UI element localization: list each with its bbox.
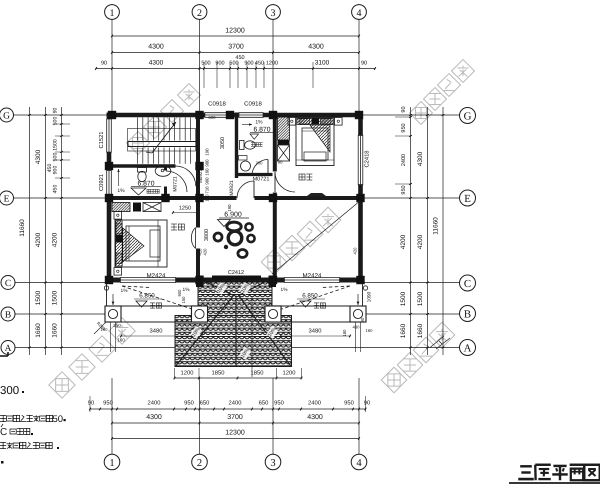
door openings bbox=[176, 164, 196, 169]
watermark 1 (stairs area) bbox=[127, 84, 201, 155]
svg-text:250: 250 bbox=[113, 323, 121, 328]
grid axis vertical extension lines bbox=[111, 20, 113, 113]
svg-text:90: 90 bbox=[88, 400, 94, 407]
window C1521 on left wall bbox=[106, 119, 111, 153]
right dim line detailed bbox=[410, 107, 412, 355]
svg-text:1: 1 bbox=[110, 8, 115, 19]
svg-text:C: C bbox=[464, 278, 471, 290]
svg-text:900: 900 bbox=[205, 159, 210, 167]
svg-text:6.900: 6.900 bbox=[224, 212, 242, 219]
right dim line 11660 bbox=[442, 107, 444, 355]
wall axis E bbox=[107, 196, 363, 200]
svg-text:4200: 4200 bbox=[417, 234, 424, 249]
column small dims bbox=[121, 335, 192, 337]
door arc corridor at E wall bbox=[237, 181, 254, 198]
svg-text:M2424: M2424 bbox=[303, 273, 322, 280]
svg-text:4200: 4200 bbox=[400, 234, 407, 249]
window M2424 right bedroom bbox=[284, 277, 340, 283]
svg-text:1850: 1850 bbox=[212, 370, 225, 377]
balcony columns 2 3 over tiles bbox=[192, 306, 208, 322]
note low 50 bbox=[0, 415, 6, 421]
svg-text:E: E bbox=[4, 195, 10, 205]
svg-text:450: 450 bbox=[53, 185, 59, 194]
svg-text:1850: 1850 bbox=[251, 370, 264, 377]
svg-text:700: 700 bbox=[256, 161, 264, 166]
svg-text:3480: 3480 bbox=[309, 328, 322, 335]
svg-text:1660: 1660 bbox=[400, 323, 407, 338]
svg-text:710: 710 bbox=[205, 186, 210, 194]
balcony dashed slope lines bbox=[122, 286, 195, 310]
clipped mark top bbox=[0, 355, 8, 357]
wall bottom along axis C bbox=[107, 278, 363, 283]
svg-text:500: 500 bbox=[229, 61, 238, 67]
svg-text:160: 160 bbox=[205, 168, 210, 176]
svg-text:50: 50 bbox=[53, 414, 64, 425]
svg-text:900: 900 bbox=[177, 289, 182, 297]
door arc central bath bbox=[252, 160, 268, 176]
svg-text:6.850: 6.850 bbox=[302, 293, 318, 300]
svg-text:4: 4 bbox=[357, 8, 362, 19]
grade break symbol bbox=[430, 336, 444, 348]
bottom dim row detailed bbox=[90, 408, 366, 410]
watermark 3 (center) bbox=[261, 207, 341, 275]
window C0918 right of axis 3 bbox=[239, 112, 264, 117]
svg-text:180: 180 bbox=[342, 329, 347, 337]
svg-text:4300: 4300 bbox=[308, 44, 324, 51]
svg-text:160: 160 bbox=[366, 328, 374, 333]
svg-text:3480: 3480 bbox=[150, 328, 163, 335]
svg-text:M0721: M0721 bbox=[173, 176, 179, 192]
svg-text:1500: 1500 bbox=[53, 139, 59, 151]
svg-text:12300: 12300 bbox=[225, 430, 245, 437]
top dim droplines bbox=[203, 62, 205, 88]
svg-text:950: 950 bbox=[401, 185, 407, 194]
wall axis 3 bbox=[273, 113, 277, 281]
wall right along axis 4 bbox=[358, 113, 363, 283]
svg-text:1200: 1200 bbox=[266, 61, 278, 67]
svg-text:650: 650 bbox=[200, 400, 210, 407]
nightstands left bedroom bbox=[114, 212, 122, 220]
svg-text:2: 2 bbox=[197, 8, 202, 19]
terrace diagonal line bbox=[272, 201, 361, 275]
svg-text:900: 900 bbox=[244, 61, 253, 67]
svg-text:3: 3 bbox=[270, 458, 275, 469]
svg-text:B: B bbox=[464, 309, 471, 321]
svg-text:4200: 4200 bbox=[35, 232, 42, 247]
left dim line detailed bbox=[61, 107, 63, 355]
svg-text:2: 2 bbox=[197, 458, 202, 469]
svg-text:420: 420 bbox=[358, 247, 363, 255]
svg-text:1500: 1500 bbox=[35, 290, 42, 305]
svg-text:B: B bbox=[5, 311, 11, 321]
door arc bath internal bbox=[166, 171, 187, 192]
top dim row detailed bbox=[96, 68, 375, 70]
svg-text:900: 900 bbox=[205, 177, 210, 185]
structural columns (black) bbox=[108, 111, 116, 119]
svg-text:1%: 1% bbox=[121, 288, 129, 294]
wall central bath vertical bbox=[235, 113, 238, 179]
svg-text:650: 650 bbox=[259, 400, 269, 407]
svg-text:90: 90 bbox=[401, 106, 407, 112]
entrance roof tiles bbox=[198, 278, 272, 316]
window C2418 on right wall bbox=[358, 135, 363, 185]
svg-text:M2424: M2424 bbox=[147, 273, 166, 280]
right dim droplines bbox=[395, 116, 411, 118]
bed left bedroom bbox=[115, 220, 167, 267]
svg-text:190: 190 bbox=[227, 204, 232, 212]
svg-text:450: 450 bbox=[255, 61, 264, 67]
column droplines below balcony bbox=[110, 322, 112, 352]
bottom dim row 4300 3700 4300 bbox=[112, 422, 359, 424]
svg-text:4: 4 bbox=[356, 458, 362, 469]
svg-text:1500: 1500 bbox=[417, 291, 424, 306]
svg-text:G: G bbox=[3, 112, 10, 122]
top dim row 12300 bbox=[112, 35, 359, 37]
shaft right of axis 3 bbox=[278, 117, 290, 140]
door arc right bedroom bbox=[275, 172, 295, 192]
svg-text:90: 90 bbox=[277, 160, 283, 165]
label bedroom right bbox=[299, 174, 305, 180]
svg-text:90: 90 bbox=[53, 108, 59, 114]
staircase bbox=[137, 118, 139, 141]
svg-text:A: A bbox=[464, 343, 472, 355]
svg-text:C2412: C2412 bbox=[228, 270, 244, 276]
svg-text:90: 90 bbox=[360, 317, 365, 322]
door arc left bedroom bbox=[191, 228, 195, 249]
svg-text:1200: 1200 bbox=[283, 370, 296, 377]
svg-text:2400: 2400 bbox=[308, 400, 321, 407]
svg-text:3700: 3700 bbox=[227, 414, 243, 421]
svg-text:4300: 4300 bbox=[146, 414, 162, 421]
svg-text:4300: 4300 bbox=[417, 151, 424, 166]
balcony parapet bbox=[107, 305, 192, 307]
roof slope labels 10% bbox=[215, 282, 227, 295]
bathroom left fixtures (toilet, basin) bbox=[138, 168, 147, 173]
svg-text:G: G bbox=[464, 111, 472, 123]
svg-text:4300: 4300 bbox=[307, 414, 323, 421]
svg-text:2400: 2400 bbox=[401, 154, 407, 166]
tv table right bedroom bbox=[307, 193, 326, 196]
wall top along axis G bbox=[107, 113, 363, 118]
left dim line 11660 bbox=[29, 107, 31, 355]
window M2424 left bedroom bbox=[120, 277, 176, 283]
svg-text:3800: 3800 bbox=[204, 229, 210, 241]
balcony arrows bbox=[112, 294, 114, 305]
svg-text:4300: 4300 bbox=[149, 60, 164, 67]
svg-text:950: 950 bbox=[103, 400, 113, 407]
left dim line grid spans bbox=[45, 107, 47, 355]
svg-text:1%: 1% bbox=[183, 287, 191, 293]
bottom dim edge verticals bbox=[89, 396, 91, 412]
svg-text:1250: 1250 bbox=[179, 206, 191, 212]
svg-text:6.850: 6.850 bbox=[139, 293, 155, 300]
svg-text:4300: 4300 bbox=[148, 44, 164, 51]
svg-text:C2418: C2418 bbox=[364, 150, 371, 167]
svg-text:450: 450 bbox=[47, 164, 53, 173]
svg-text:420: 420 bbox=[203, 248, 208, 256]
svg-text:900: 900 bbox=[53, 166, 59, 175]
svg-text:160: 160 bbox=[117, 338, 125, 343]
axis bubbles G E C B A left bbox=[0, 108, 14, 122]
svg-text:190: 190 bbox=[205, 148, 210, 156]
svg-text:11660: 11660 bbox=[19, 219, 26, 237]
svg-text:1500: 1500 bbox=[52, 290, 59, 305]
svg-text:950: 950 bbox=[274, 400, 284, 407]
svg-text:11660: 11660 bbox=[433, 217, 440, 235]
svg-text:950: 950 bbox=[184, 400, 194, 407]
shaft boxes below bathroom bbox=[112, 203, 130, 212]
balcony drains bbox=[104, 286, 108, 290]
window C0918 left of axis 3 bbox=[205, 112, 230, 117]
window C0921 on left wall bbox=[106, 170, 111, 195]
svg-text:2400: 2400 bbox=[148, 400, 161, 407]
left dim droplines bbox=[55, 123, 70, 125]
svg-text:4300: 4300 bbox=[35, 149, 42, 164]
svg-text:4200: 4200 bbox=[52, 232, 59, 247]
watermark 2 (top right) bbox=[410, 60, 475, 125]
svg-text:12300: 12300 bbox=[225, 28, 245, 35]
svg-text:1660: 1660 bbox=[52, 323, 59, 338]
nightstands right bedroom bbox=[288, 118, 296, 126]
label bedroom left bbox=[171, 224, 177, 230]
svg-text:C: C bbox=[5, 279, 11, 289]
grid axis horizontal lines bbox=[14, 114, 107, 116]
bed right bedroom bbox=[296, 118, 334, 166]
door arc stair corridor bbox=[176, 166, 196, 186]
svg-text:M0921: M0921 bbox=[198, 169, 203, 183]
svg-text:2400: 2400 bbox=[229, 400, 242, 407]
roof eave dim row 1200 1850 1850 1200 bbox=[175, 377, 302, 379]
right dim line grid spans bbox=[427, 107, 429, 355]
svg-text:1500: 1500 bbox=[400, 291, 407, 306]
svg-text:950: 950 bbox=[401, 123, 407, 132]
svg-text:M0921: M0921 bbox=[229, 180, 235, 196]
svg-text:90: 90 bbox=[364, 400, 370, 407]
wall left along axis 1 bbox=[107, 113, 112, 283]
svg-text:950: 950 bbox=[344, 400, 354, 407]
svg-text:3100: 3100 bbox=[315, 60, 330, 67]
svg-text:3: 3 bbox=[271, 8, 276, 19]
dim 1250 bbox=[173, 212, 197, 214]
svg-text:150: 150 bbox=[181, 296, 186, 304]
svg-text:C0918: C0918 bbox=[208, 101, 226, 108]
wall bath internal vertical bbox=[164, 166, 167, 198]
svg-text:1090: 1090 bbox=[367, 291, 373, 302]
watermark 5 (bottom left) bbox=[49, 318, 135, 398]
svg-text:600: 600 bbox=[208, 115, 216, 120]
svg-text:3700: 3700 bbox=[228, 44, 244, 51]
svg-text:1%: 1% bbox=[255, 120, 263, 126]
svg-text:1200: 1200 bbox=[181, 370, 194, 377]
wall stair-bath divider bbox=[109, 164, 200, 168]
svg-text:190: 190 bbox=[205, 194, 210, 202]
svg-text:C0918: C0918 bbox=[244, 101, 262, 108]
svg-text:480: 480 bbox=[353, 325, 361, 330]
svg-text:M0721: M0721 bbox=[253, 177, 270, 183]
roof top band C2412 bbox=[212, 276, 261, 280]
central bathroom fixtures bbox=[240, 141, 245, 150]
axis bubbles 1-4 bottom bbox=[104, 454, 120, 470]
bottom dim row 12300 bbox=[112, 438, 359, 440]
svg-text:1%: 1% bbox=[281, 287, 289, 293]
roof hip lines bbox=[176, 296, 234, 366]
svg-text:1%: 1% bbox=[117, 188, 125, 194]
title san ceng ping mian tu bbox=[520, 465, 532, 467]
svg-text:E: E bbox=[464, 193, 471, 205]
svg-text:C: C bbox=[0, 427, 7, 438]
svg-text:300: 300 bbox=[0, 385, 19, 397]
wall axis 2 bbox=[196, 113, 200, 281]
top dim row 4300 3700 4300 bbox=[112, 52, 359, 54]
axis bubbles 1-4 top bbox=[105, 5, 120, 20]
sofa set living room bbox=[228, 231, 242, 245]
svg-text:1660: 1660 bbox=[35, 323, 42, 338]
svg-text:1: 1 bbox=[109, 458, 114, 469]
bullet dot bbox=[1, 461, 4, 464]
svg-text:500: 500 bbox=[201, 61, 210, 67]
wall central bath bottom bbox=[237, 173, 274, 176]
note construction bbox=[0, 442, 6, 448]
svg-text:450: 450 bbox=[235, 55, 244, 61]
svg-text:1660: 1660 bbox=[417, 323, 424, 338]
axis bubbles G E C B A right bbox=[460, 108, 476, 124]
watermark 4 (bottom right) bbox=[381, 322, 455, 393]
svg-text:C0921: C0921 bbox=[98, 174, 105, 191]
svg-text:3050: 3050 bbox=[220, 137, 226, 149]
svg-text:90: 90 bbox=[101, 61, 107, 67]
balcony columns round bbox=[105, 306, 121, 322]
svg-text:C1521: C1521 bbox=[98, 131, 105, 148]
svg-text:90: 90 bbox=[361, 61, 367, 67]
